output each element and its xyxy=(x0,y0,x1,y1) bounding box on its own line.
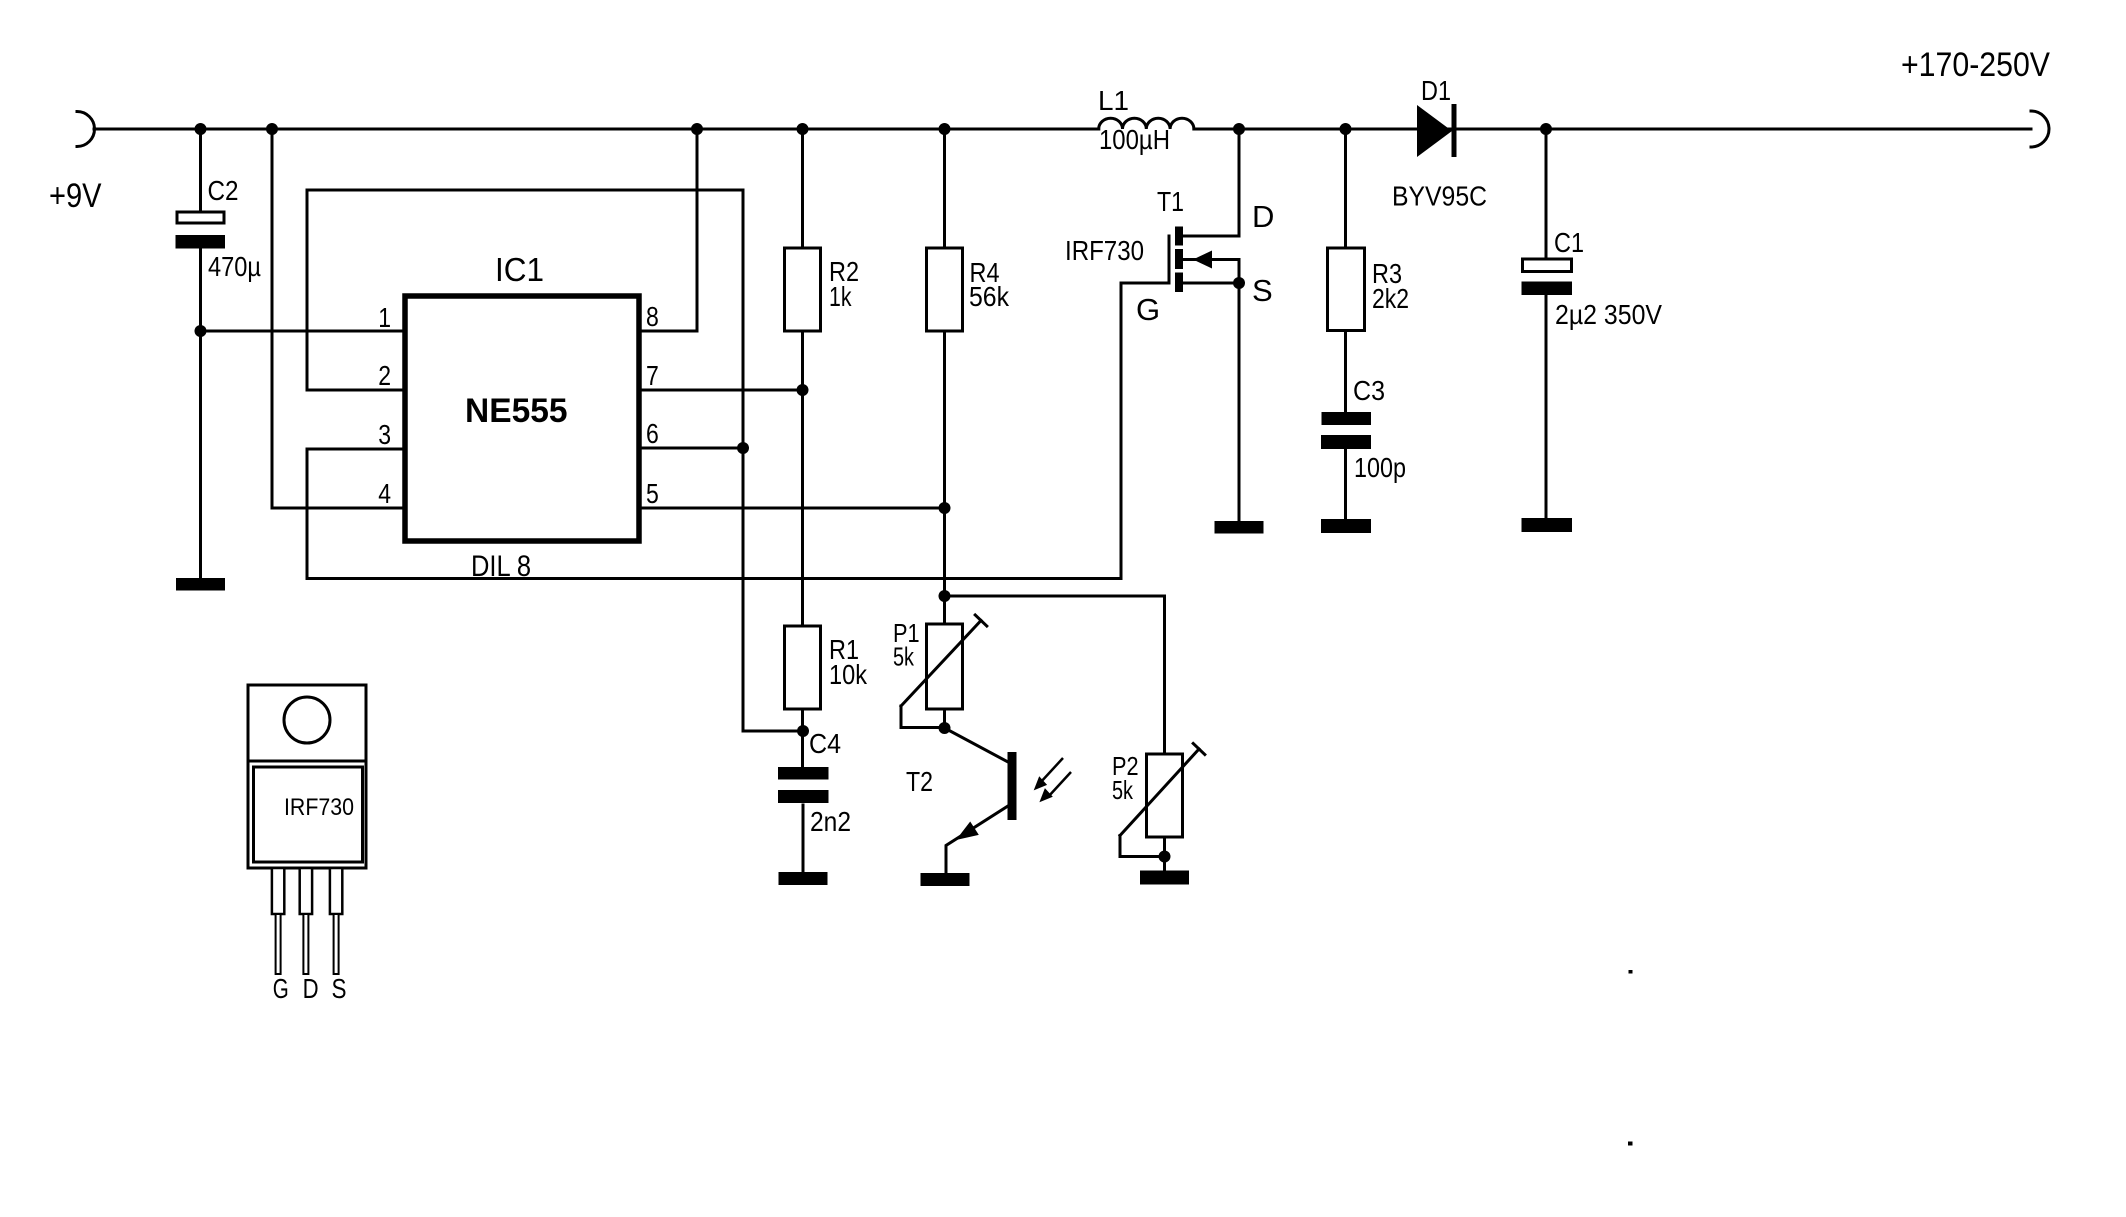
svg-text:1: 1 xyxy=(378,302,391,333)
wire pin4 to +9V rail xyxy=(272,129,405,508)
svg-text:G: G xyxy=(1136,292,1160,327)
node junction P1 wiper/T2 collector xyxy=(939,722,951,734)
svg-text:D1: D1 xyxy=(1421,75,1451,106)
pin 4 label xyxy=(378,478,391,509)
wire pin3 to T1 gate xyxy=(307,283,1169,579)
svg-text:7: 7 xyxy=(646,360,659,391)
transistor T1 package drawing (TO-220 IRF730) xyxy=(248,685,366,868)
pin 3 label xyxy=(378,419,391,450)
svg-text:C4: C4 xyxy=(809,728,841,759)
ground (below T2 emitter) xyxy=(921,873,970,886)
ground (below T1 source) xyxy=(1215,521,1264,534)
wire +9V supply rail (left of L1) xyxy=(94,128,1099,131)
svg-text:T1: T1 xyxy=(1157,186,1184,217)
node junction rail/R3 xyxy=(1340,123,1352,135)
node junction pin7/R2/R1 xyxy=(797,384,809,396)
svg-text:L1: L1 xyxy=(1098,85,1129,116)
node junction rail/R2 xyxy=(797,123,809,135)
svg-text:6: 6 xyxy=(646,418,659,449)
node junction T1 source xyxy=(1233,277,1245,289)
pin G leg of package xyxy=(272,868,289,1004)
capacitor C3 100p xyxy=(1321,375,1406,519)
node junction rail/C2 xyxy=(195,123,207,135)
svg-text:2n2: 2n2 xyxy=(810,806,851,837)
inductor L1 xyxy=(1098,85,1194,155)
ground (below P2) xyxy=(1140,871,1189,885)
node +9V label xyxy=(49,177,102,215)
wire pin5 to R4/P1 net xyxy=(639,507,945,510)
pin 6 label xyxy=(646,418,659,449)
node junction R4/P1/P2 net xyxy=(939,590,951,602)
svg-text:4: 4 xyxy=(378,478,391,509)
node junction R1/C4/pin2 net xyxy=(797,725,809,737)
svg-text:NE555: NE555 xyxy=(465,392,568,430)
svg-text:C1: C1 xyxy=(1554,227,1584,258)
ground (below C1) xyxy=(1522,518,1573,532)
svg-text:1k: 1k xyxy=(829,281,852,312)
svg-text:5: 5 xyxy=(646,478,659,509)
ground (below C4) xyxy=(779,872,828,885)
svg-text:D: D xyxy=(303,973,319,1004)
diode D1 BYV95C xyxy=(1392,75,1487,212)
node junction pin5/R4 xyxy=(939,502,951,514)
pin 5 label xyxy=(646,478,659,509)
wire pin8 to +9V rail xyxy=(639,129,697,331)
ground (below C2) xyxy=(176,578,225,591)
node speck mark upper xyxy=(1629,970,1633,974)
wire pin2 loop to pin6 and C4 xyxy=(307,190,803,731)
node junction rail/pin8 xyxy=(691,123,703,135)
svg-text:C2: C2 xyxy=(208,175,239,206)
resistor R1 10k xyxy=(785,626,868,768)
resistor R3 2k2 xyxy=(1328,129,1410,411)
svg-text:2: 2 xyxy=(378,360,391,391)
svg-text:10k: 10k xyxy=(829,659,868,690)
svg-text:3: 3 xyxy=(378,419,391,450)
wire pin7 to R2/R1 net xyxy=(639,389,803,392)
resistor R2 1k xyxy=(785,129,860,626)
node junction pin6/pin2 net xyxy=(737,442,749,454)
node junction rail/pin4 xyxy=(266,123,278,135)
pin D leg of package xyxy=(300,868,319,1004)
capacitor C1 2u2 350V (electrolytic) xyxy=(1522,129,1663,518)
node +170-250V output connector (right arc) xyxy=(1901,46,2050,147)
wire light arrow 2 (into T2) xyxy=(1039,772,1071,802)
svg-text:S: S xyxy=(1252,273,1273,308)
svg-text:IRF730: IRF730 xyxy=(1065,235,1144,266)
capacitor C4 2n2 xyxy=(778,728,851,872)
transistor T1 IRF730 MOSFET xyxy=(1065,129,1274,327)
node speck mark lower xyxy=(1628,1142,1633,1146)
pin 7 label xyxy=(646,360,659,391)
potentiometer P1 5k xyxy=(893,615,987,728)
wire T1 source to ground xyxy=(1238,283,1241,521)
ground (below C3) xyxy=(1321,519,1371,533)
node junction C2/pin1 xyxy=(195,325,207,337)
svg-text:56k: 56k xyxy=(969,281,1010,312)
potentiometer P2 5k xyxy=(1112,744,1205,871)
transistor T2 phototransistor xyxy=(906,728,1017,873)
pin 8 label xyxy=(646,301,659,332)
svg-text:IC1: IC1 xyxy=(495,251,544,288)
pin 1 label xyxy=(378,302,391,333)
svg-text:BYV95C: BYV95C xyxy=(1392,181,1487,212)
svg-text:+170-250V: +170-250V xyxy=(1901,46,2050,84)
svg-text:2k2: 2k2 xyxy=(1372,283,1409,314)
node junction rail/T1 drain xyxy=(1233,123,1245,135)
svg-text:100µH: 100µH xyxy=(1099,124,1170,155)
svg-text:IRF730: IRF730 xyxy=(284,794,354,821)
svg-text:100p: 100p xyxy=(1354,452,1406,483)
svg-text:2µ2 350V: 2µ2 350V xyxy=(1555,299,1662,330)
wire P1 net to P2 xyxy=(945,596,1165,754)
node junction P2 wiper/ground leg xyxy=(1159,851,1171,863)
node junction rail/R4 xyxy=(939,123,951,135)
node junction rail/C1 xyxy=(1540,123,1552,135)
svg-text:D: D xyxy=(1252,199,1274,234)
svg-text:G: G xyxy=(273,973,289,1004)
svg-text:T2: T2 xyxy=(906,766,933,797)
wire light arrow 1 (into T2) xyxy=(1034,758,1063,790)
svg-text:C3: C3 xyxy=(1353,375,1385,406)
resistor R4 56k xyxy=(927,129,1010,624)
pin S leg of package xyxy=(330,868,347,1004)
wire pin1 to C2/ground net xyxy=(201,330,406,333)
wire pin6 stub xyxy=(639,447,743,450)
node +9V input connector (left arc) xyxy=(77,112,95,147)
svg-text:5k: 5k xyxy=(893,642,915,672)
svg-text:+9V: +9V xyxy=(49,177,102,215)
capacitor C2 470u (electrolytic) xyxy=(176,129,262,578)
svg-text:S: S xyxy=(332,973,347,1004)
pin 2 label xyxy=(378,360,391,391)
svg-text:5k: 5k xyxy=(1112,775,1134,805)
wire output rail (right of L1) xyxy=(1194,128,2031,131)
svg-text:470µ: 470µ xyxy=(208,251,261,282)
svg-text:8: 8 xyxy=(646,301,659,332)
op-amp/IC U1: NE555 timer IC1 body xyxy=(405,251,639,583)
